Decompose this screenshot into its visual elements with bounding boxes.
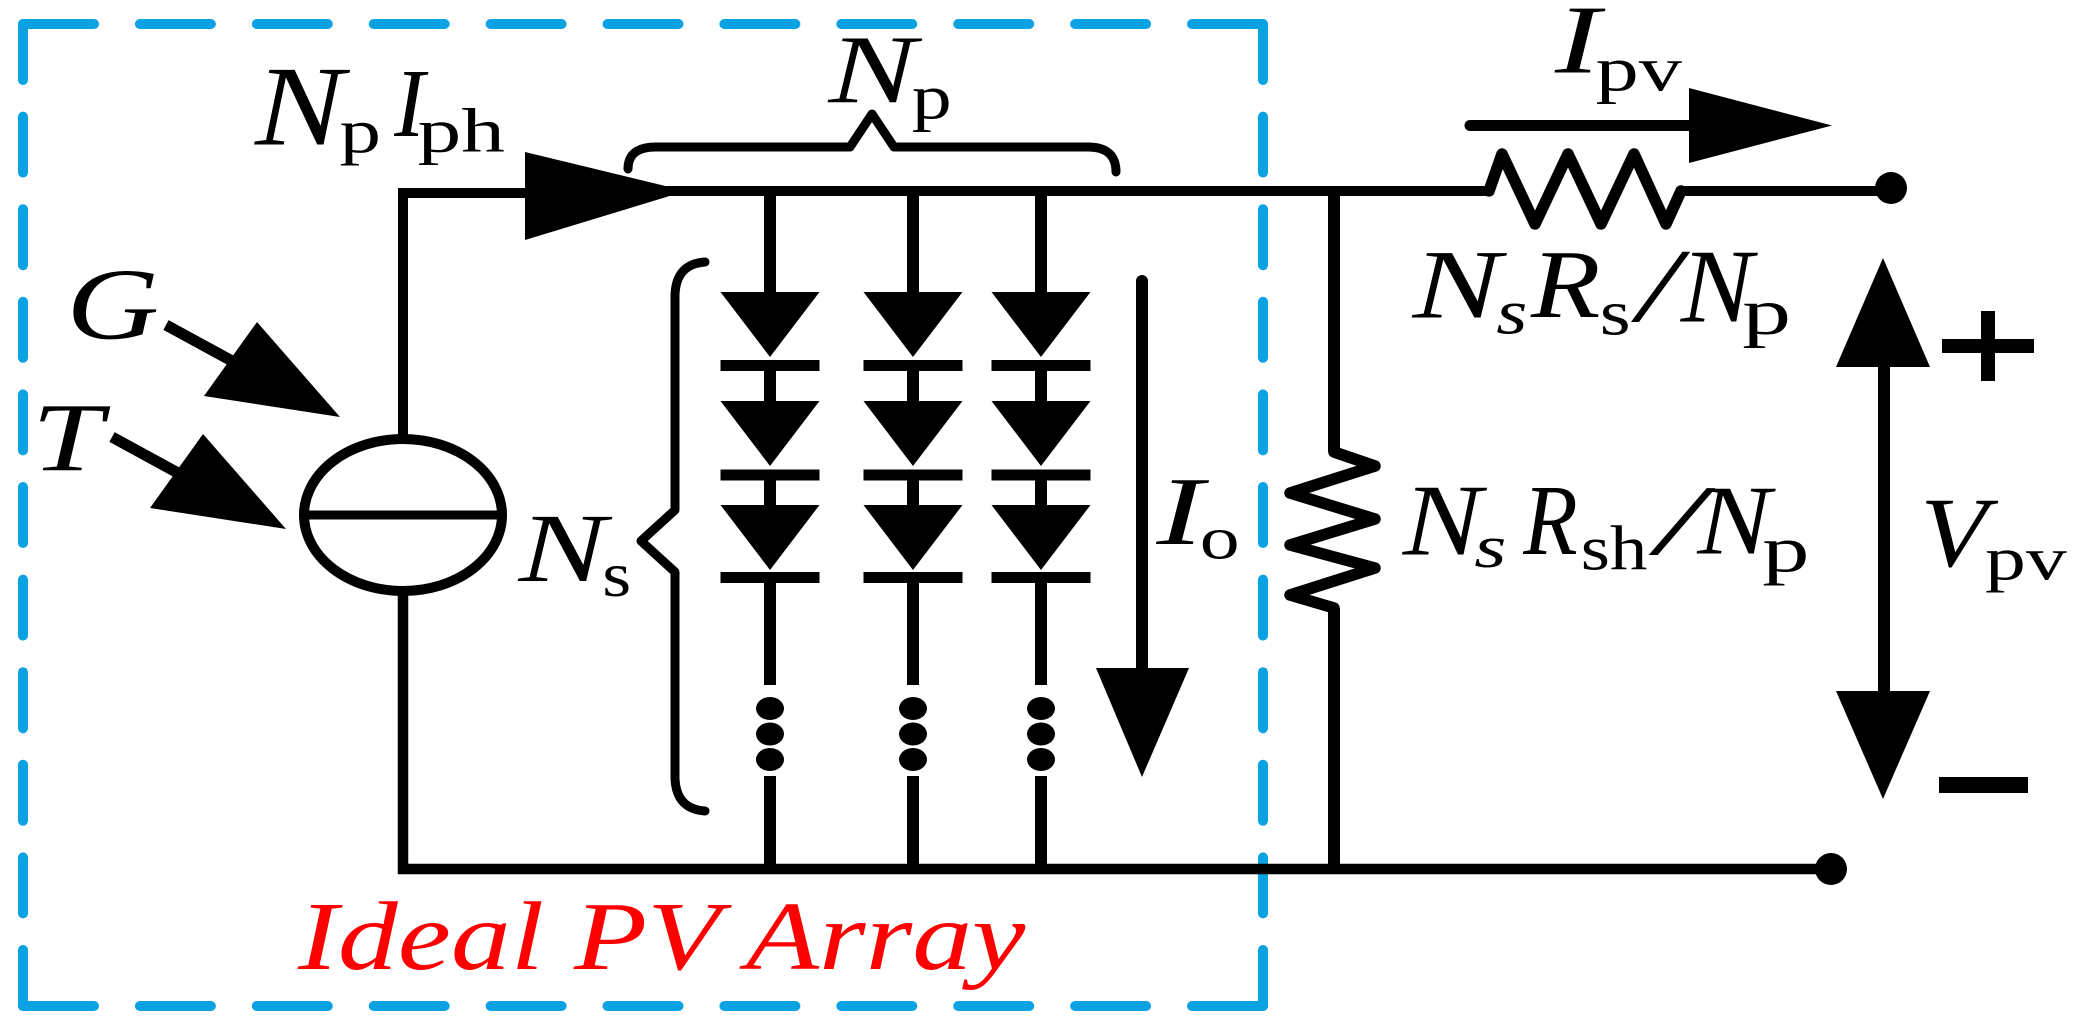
svg-text:G: G xyxy=(66,249,159,362)
svg-text:pv: pv xyxy=(1596,35,1683,104)
svg-text:N: N xyxy=(518,495,613,603)
label: Vpv xyxy=(1920,477,2068,593)
boundary box: Ideal PV Array dashed border xyxy=(23,24,1263,1006)
diode D22 xyxy=(864,401,963,475)
wire: Rs to positive terminal xyxy=(1681,186,1880,196)
arrow: Ipv output current xyxy=(1470,88,1832,163)
arrow: Io diode current xyxy=(1096,281,1189,777)
diode D13 xyxy=(721,505,820,578)
diode D12 xyxy=(721,401,820,475)
svg-text:s: s xyxy=(602,540,631,609)
label: Ipv xyxy=(1554,0,1682,104)
svg-text:s: s xyxy=(1496,278,1527,348)
svg-text:s: s xyxy=(1600,276,1631,349)
svg-text:p: p xyxy=(1742,276,1791,349)
svg-text:N: N xyxy=(827,16,922,124)
arrow: NpIph current direction xyxy=(525,152,686,240)
label: plus polarity xyxy=(1942,311,2034,381)
label: Io xyxy=(1155,458,1239,572)
wire: string 2 bottom lead xyxy=(907,776,919,869)
wire: string 3 bottom lead xyxy=(1035,776,1047,869)
wire: string 3 top lead xyxy=(1035,191,1047,296)
svg-text:s: s xyxy=(1474,514,1506,580)
diode D32 xyxy=(992,401,1091,475)
label: NpIph xyxy=(254,43,505,170)
svg-text:ph: ph xyxy=(418,96,505,166)
wire: top rail xyxy=(650,186,1489,196)
svg-text:sh: sh xyxy=(1581,514,1648,584)
brace: Np over parallel diode strings xyxy=(628,114,1116,172)
wire: string 1 bottom lead xyxy=(764,776,776,869)
label: Ns xyxy=(518,495,632,610)
ellipsis: string 3 continuation dots xyxy=(1027,697,1055,771)
wire: D11-D12 xyxy=(764,365,776,405)
wire: current source bottom lead and bottom rail xyxy=(403,592,1831,869)
wire: D31-D32 xyxy=(1035,365,1047,405)
wire: D23 to ellipsis xyxy=(907,577,919,685)
diode string 3 xyxy=(992,191,1091,869)
svg-text:o: o xyxy=(1200,506,1240,572)
resistor Rsh zigzag xyxy=(1290,452,1375,608)
svg-text:R: R xyxy=(1530,229,1601,338)
label: NsRsh/Np xyxy=(1402,464,1810,586)
ellipsis: string 2 continuation dots xyxy=(899,697,927,771)
wire: D22-D23 xyxy=(907,475,919,509)
diode D21 xyxy=(864,292,963,366)
arrow: temperature T input xyxy=(112,434,286,529)
label: Np xyxy=(827,16,951,132)
label: NsRs/Np xyxy=(1412,228,1791,349)
diode D31 xyxy=(992,292,1091,366)
svg-text:p: p xyxy=(340,97,382,166)
wire: D12-D13 xyxy=(764,475,776,509)
diode string 2 xyxy=(864,191,963,869)
arrow: Vpv voltage double-headed xyxy=(1836,258,1930,799)
svg-text:pv: pv xyxy=(1985,525,2068,593)
svg-text:p: p xyxy=(1762,512,1809,586)
svg-text:N: N xyxy=(254,43,351,170)
diode string 1 xyxy=(721,191,820,869)
svg-text:T: T xyxy=(32,384,111,492)
wire: string 2 top lead xyxy=(907,191,919,296)
wire: shunt branch of Rsh xyxy=(1328,191,1340,869)
svg-text:p: p xyxy=(912,62,952,132)
resistor Rs zigzag xyxy=(1489,154,1681,224)
wire: current source top lead to NpIph arrow xyxy=(403,193,528,440)
svg-text:R: R xyxy=(1522,464,1577,576)
diode D23 xyxy=(864,505,963,578)
ellipsis: string 1 continuation dots xyxy=(756,697,784,771)
svg-text:Ideal PV Array: Ideal PV Array xyxy=(297,881,1026,990)
arrow: irradiance G input xyxy=(166,322,340,417)
current source: photogenerated current Np*Iph xyxy=(304,439,502,591)
diode D11 xyxy=(721,292,820,366)
diode D33 xyxy=(992,505,1091,578)
node: negative output terminal xyxy=(1815,853,1847,885)
label: minus polarity xyxy=(1939,777,2028,793)
wire: D13 to ellipsis xyxy=(764,577,776,685)
node: positive output terminal xyxy=(1875,172,1907,204)
svg-text:N: N xyxy=(1412,231,1508,340)
brace: Ns for series-connected diodes xyxy=(641,262,705,811)
wire: D32-D33 xyxy=(1035,475,1047,509)
wire: string 1 top lead xyxy=(764,191,776,296)
wire: D21-D22 xyxy=(907,365,919,405)
wire: D33 to ellipsis xyxy=(1035,577,1047,685)
